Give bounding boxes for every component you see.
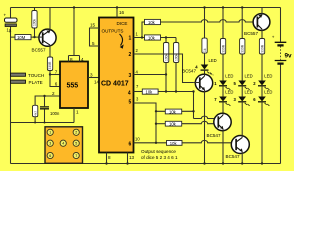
svg-text:10k: 10k: [169, 109, 177, 114]
svg-text:LED: LED: [264, 74, 272, 79]
battery B1 9V: [272, 8, 292, 164]
LED D7: [214, 90, 233, 114]
wire top +9V rail: [11, 7, 281, 9]
svg-text:BC547: BC547: [207, 133, 221, 138]
dice display box: [45, 127, 83, 164]
wire pin3 output: [134, 74, 167, 76]
LED D5: [234, 74, 253, 97]
svg-text:DICE: DICE: [117, 21, 128, 26]
transistor Q3 BC547: [207, 113, 232, 164]
svg-text:7: 7: [75, 154, 77, 158]
wire 555 pin6: [50, 75, 60, 87]
svg-text:of dice 5 2 3 4 6 1: of dice 5 2 3 4 6 1: [141, 155, 178, 160]
resistor R9 10k: [142, 89, 158, 94]
LED D6: [253, 90, 272, 165]
svg-text:PLATE: PLATE: [29, 80, 43, 85]
wire 555 pin1: [73, 108, 75, 123]
svg-text:100k: 100k: [174, 53, 178, 61]
svg-text:BC547: BC547: [226, 154, 240, 159]
svg-text:Output sequence: Output sequence: [141, 149, 176, 154]
transistor Q2 BC547: [182, 69, 213, 165]
svg-text:3: 3: [90, 73, 93, 78]
svg-text:10k: 10k: [169, 122, 177, 127]
capacitor C1 1u: [4, 12, 18, 32]
IC U2 CD4017: [99, 18, 134, 153]
transistor Q5 BC557: [244, 8, 270, 39]
svg-text:OUTPUTS: OUTPUTS: [102, 28, 124, 33]
svg-text:3: 3: [129, 73, 132, 79]
svg-text:LED: LED: [245, 90, 253, 95]
wire R12 to Q4 base with hop: [182, 140, 236, 143]
wire bottom-left node: [11, 122, 75, 124]
svg-text:LED: LED: [209, 58, 217, 63]
svg-text:1: 1: [76, 110, 79, 115]
svg-text:330R: 330R: [221, 44, 225, 53]
svg-text:1k: 1k: [203, 48, 207, 52]
touch plate: [11, 73, 45, 85]
svg-text:TOUCH: TOUCH: [28, 73, 44, 78]
svg-text:8: 8: [70, 57, 73, 62]
svg-text:330R: 330R: [48, 61, 52, 70]
resistor R6 10k: [145, 35, 161, 40]
wire pin2 output drop: [134, 54, 194, 83]
resistor R2 10k: [32, 8, 37, 39]
svg-text:330R: 330R: [241, 44, 245, 53]
LED D1: [214, 74, 233, 97]
svg-text:10M: 10M: [17, 35, 26, 40]
resistor R3: [47, 57, 52, 75]
wire LED col2 riser: [241, 8, 243, 39]
svg-text:5: 5: [129, 100, 132, 106]
wire LED4 column riser: [204, 8, 206, 39]
svg-text:9v: 9v: [285, 53, 293, 60]
resistor R13: [202, 38, 207, 64]
wire pin1 output node: [134, 22, 145, 38]
svg-text:2: 2: [129, 52, 132, 58]
svg-text:10k: 10k: [148, 35, 156, 40]
resistor R4: [33, 105, 38, 122]
wire R9 to node: [158, 92, 193, 119]
transistor Q4 BC547: [226, 135, 250, 164]
LED D2: [253, 74, 272, 97]
svg-text:4: 4: [81, 57, 84, 62]
wire R6 to divider resistors: [161, 38, 177, 43]
resistor R7: [164, 43, 169, 92]
wire node to Q3 base with hop: [194, 116, 219, 118]
LED D4: [195, 58, 216, 76]
svg-text:LED: LED: [225, 90, 233, 95]
svg-text:CD 4017: CD 4017: [101, 80, 129, 87]
wire R11 to Q3: [182, 121, 214, 123]
wire pin6 output: [134, 142, 167, 144]
capacitor C2 100n: [40, 95, 60, 123]
svg-text:2: 2: [52, 91, 55, 96]
svg-text:+: +: [272, 35, 275, 40]
wire 555 pin2: [35, 96, 60, 105]
wire LED col1 riser: [222, 8, 224, 39]
arrow dice outputs: [120, 34, 123, 46]
svg-text:BC557: BC557: [32, 48, 46, 53]
resistor R15: [240, 39, 245, 81]
svg-text:10k: 10k: [146, 90, 154, 95]
transistor Q1 BC557: [32, 8, 57, 59]
wire 555 pin3 to 4017 pin14: [88, 77, 99, 79]
svg-text:100k: 100k: [164, 53, 168, 61]
svg-text:LED: LED: [264, 90, 272, 95]
svg-text:555: 555: [67, 83, 79, 90]
svg-text:4k7: 4k7: [33, 111, 37, 116]
resistor R5 10k: [145, 19, 161, 24]
wire 4017 pin15-pin5 reset loop: [90, 28, 100, 46]
svg-text:3: 3: [49, 142, 51, 146]
svg-text:330R: 330R: [260, 44, 264, 53]
wire base feed to BC557 with hops: [161, 20, 258, 22]
wire 4017 pin16 to rail: [116, 8, 118, 18]
resistor R8: [174, 43, 179, 92]
svg-text:100k: 100k: [33, 18, 37, 26]
IC U1 555: [60, 62, 88, 109]
svg-text:4: 4: [128, 91, 131, 97]
wire left vertical: [10, 8, 12, 164]
svg-text:100n: 100n: [50, 111, 60, 116]
resistor R11 10k: [156, 123, 165, 125]
wire 555 pin7: [50, 74, 60, 76]
svg-text:BC557: BC557: [244, 31, 258, 36]
svg-text:1µ: 1µ: [7, 28, 12, 33]
svg-text:10: 10: [135, 137, 140, 142]
resistor R14: [220, 39, 225, 81]
svg-text:4: 4: [62, 142, 64, 146]
wire pin5 output: [134, 103, 157, 143]
resistor R1 10M: [11, 35, 39, 41]
wire 4017 pins 8 13 to 0V: [107, 153, 128, 164]
resistor R12 10k: [167, 141, 183, 146]
svg-text:16: 16: [119, 10, 125, 15]
svg-text:1: 1: [49, 131, 51, 135]
svg-text:5: 5: [75, 142, 77, 146]
svg-text:8: 8: [108, 155, 111, 160]
wire bottom 0V rail: [11, 163, 281, 165]
svg-text:15: 15: [90, 23, 96, 28]
svg-text:LED: LED: [245, 74, 253, 79]
svg-text:5: 5: [92, 41, 95, 46]
svg-text:6: 6: [129, 142, 132, 148]
resistor R10 10k: [156, 110, 194, 112]
svg-text:BC547: BC547: [182, 69, 196, 74]
svg-text:2: 2: [75, 131, 77, 135]
node base junction: [33, 36, 35, 38]
svg-text:13: 13: [129, 155, 135, 160]
svg-text:10k: 10k: [170, 141, 178, 146]
resistor R16: [259, 39, 264, 81]
svg-text:6: 6: [55, 82, 58, 87]
svg-text:LED: LED: [225, 74, 233, 79]
svg-text:6: 6: [49, 154, 51, 158]
svg-text:7: 7: [55, 70, 58, 75]
wire pin4 output: [134, 91, 143, 93]
wire 555 pins 8 and 4 to rail: [69, 8, 80, 62]
LED D3: [234, 90, 253, 136]
svg-text:1: 1: [129, 36, 132, 42]
svg-text:+: +: [4, 12, 7, 17]
svg-text:10k: 10k: [148, 20, 156, 25]
